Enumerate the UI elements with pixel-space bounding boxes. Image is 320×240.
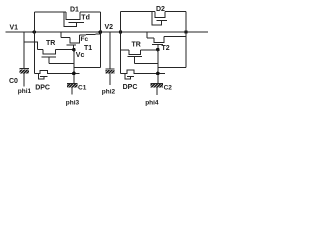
wire T2 drain bbox=[147, 37, 154, 39]
transistor TR right gate lead bbox=[134, 57, 136, 64]
label C1 bbox=[78, 84, 87, 91]
node V2 label bbox=[105, 24, 114, 31]
label TR bbox=[46, 40, 55, 47]
wire main rail V1-V2 bbox=[6, 31, 209, 33]
label DPC bbox=[35, 84, 50, 91]
svg-text:T2: T2 bbox=[162, 45, 170, 52]
label Vc bbox=[76, 52, 85, 59]
svg-text:D1: D1 bbox=[70, 7, 79, 14]
svg-text:C1: C1 bbox=[78, 84, 87, 91]
label C0 bbox=[9, 78, 18, 85]
transistor DPC gate lead loop bbox=[38, 73, 44, 79]
capacitor C2 bottom lead phi4 bbox=[156, 88, 158, 95]
svg-text:TR: TR bbox=[132, 41, 141, 48]
svg-text:DPC: DPC bbox=[123, 84, 138, 91]
label phi3 bbox=[66, 100, 80, 107]
label phi1 bbox=[18, 88, 32, 95]
wire TR drain bbox=[38, 49, 44, 51]
node V1 label bbox=[10, 24, 19, 31]
svg-text:V1: V1 bbox=[10, 24, 19, 31]
transistor Td gate lead loop to drain bbox=[64, 12, 77, 27]
label DPC right bbox=[123, 84, 138, 91]
svg-text:T1: T1 bbox=[84, 45, 92, 52]
wire top rail right cell bbox=[121, 11, 156, 13]
transistor T2 gate lead to Vc2 bbox=[157, 44, 159, 49]
label D1 bbox=[70, 7, 79, 14]
wire left cell bottom branch bbox=[33, 32, 35, 73]
wire left loop riser bbox=[33, 12, 35, 32]
transistor TR gate lead bbox=[48, 57, 50, 63]
wire top rail left cell right part bbox=[80, 11, 100, 13]
wire T2 source to node D bbox=[164, 36, 186, 38]
capacitor C2 top plate bbox=[151, 83, 163, 85]
capacitor C0 hatched plate bbox=[20, 70, 29, 74]
label C2 bbox=[164, 84, 173, 91]
wire right bottom with DPC bump bbox=[121, 70, 166, 73]
transistor DPC right gate lead loop bbox=[125, 73, 130, 79]
transistor TR channel notch bbox=[43, 50, 55, 55]
label phi2 bbox=[102, 88, 116, 95]
svg-text:phi4: phi4 bbox=[145, 99, 159, 106]
junction dot C1 node bbox=[72, 72, 76, 76]
wire top rail left cell bbox=[34, 11, 66, 13]
svg-text:Vc: Vc bbox=[76, 52, 85, 59]
svg-text:phi2: phi2 bbox=[102, 88, 116, 95]
transistor T2 channel notch bbox=[154, 37, 164, 43]
svg-text:phi3: phi3 bbox=[66, 100, 80, 107]
wire node D vertical bbox=[185, 12, 187, 68]
junction dot node D (186,32) bbox=[184, 30, 188, 34]
transistor Td (D1) channel notch bbox=[66, 12, 80, 20]
transistor T2 drain riser from rail bbox=[146, 32, 148, 38]
transistor D2 gate bar bbox=[157, 20, 167, 22]
capacitor C0 bottom lead phi1 bbox=[23, 74, 25, 87]
wire bottom with DPC bump bbox=[34, 71, 79, 74]
svg-text:TR: TR bbox=[46, 40, 55, 47]
capacitor C1 top plate bbox=[67, 83, 78, 85]
junction dot node A (34,32) bbox=[33, 30, 37, 34]
capacitor C1 bottom lead phi3 bbox=[71, 88, 73, 95]
svg-text:C0: C0 bbox=[9, 78, 18, 85]
transistor T1 drain riser from rail bbox=[60, 32, 62, 38]
wire Vc to node B lower link bbox=[74, 67, 100, 69]
wire node B vertical bbox=[99, 12, 101, 68]
label T2 bbox=[162, 45, 170, 52]
wire TR gate to node Vc bbox=[49, 62, 74, 64]
transistor DPC right gate bar bbox=[127, 75, 134, 77]
svg-text:V2: V2 bbox=[105, 24, 114, 31]
svg-text:Fc: Fc bbox=[81, 36, 89, 43]
junction dot C2 node bbox=[156, 72, 160, 76]
capacitor phi2 bottom lead bbox=[109, 74, 111, 85]
transistor D2 channel notch bbox=[155, 12, 165, 18]
transistor TR right channel notch bbox=[129, 50, 140, 54]
transistor T1 channel notch bbox=[70, 35, 79, 43]
wire right cell bottom branch bbox=[120, 32, 122, 73]
transistor T2 gate bar bbox=[152, 43, 163, 45]
junction dot node C (120.5,32) bbox=[119, 30, 123, 34]
capacitor phi2 top lead from rail bbox=[109, 32, 111, 69]
transistor T1 gate bar bbox=[66, 44, 75, 46]
wire right TR source to node Vc2 bbox=[140, 49, 158, 51]
wire right loop riser bbox=[120, 12, 122, 32]
transistor TR right gate bar bbox=[128, 56, 143, 58]
wire Vc2 vertical bbox=[157, 50, 159, 84]
capacitor C2 hatched plate bbox=[151, 84, 163, 88]
wire T1 source to node B bbox=[79, 34, 100, 35]
wire top rail right cell right part bbox=[165, 11, 186, 13]
label TR right bbox=[132, 41, 141, 48]
junction dot node B (100,32) bbox=[99, 30, 103, 34]
wire right TR drain from loop riser bbox=[121, 49, 130, 51]
capacitor phi2 top plate bbox=[106, 68, 115, 70]
transistor Td gate bar bbox=[69, 22, 85, 24]
junction dot node Vc bbox=[72, 48, 76, 52]
svg-text:C2: C2 bbox=[164, 84, 173, 91]
wire Vc vertical bbox=[73, 50, 75, 84]
capacitor C1 hatched plate bbox=[67, 84, 78, 88]
svg-text:Td: Td bbox=[81, 14, 90, 21]
label Td bbox=[81, 14, 90, 21]
label Fc bbox=[81, 36, 89, 43]
svg-text:D2: D2 bbox=[156, 6, 165, 13]
wire T1 drain bbox=[61, 37, 70, 39]
transistor T1 gate lead to Vc bbox=[72, 45, 74, 50]
wire C0 to TR drain jog bbox=[24, 42, 38, 50]
label T1 bbox=[84, 45, 92, 52]
wire Vc2 to node D lower link bbox=[158, 67, 186, 69]
wire TR right gate to node Vc2 bbox=[135, 62, 159, 64]
svg-text:DPC: DPC bbox=[35, 84, 50, 91]
transistor DPC gate bar bbox=[40, 75, 48, 77]
capacitor C0 top plate bbox=[20, 68, 29, 70]
svg-text:phi1: phi1 bbox=[18, 88, 32, 95]
label D2 bbox=[156, 6, 165, 13]
wire TR source to node Vc bbox=[55, 49, 74, 51]
transistor D2 gate lead loop to drain bbox=[152, 12, 162, 25]
capacitor C0 top lead bbox=[23, 32, 25, 69]
junction dot node Vc2 bbox=[156, 48, 160, 52]
capacitor phi2 hatched plate bbox=[106, 70, 115, 74]
transistor TR gate bar bbox=[41, 56, 56, 58]
label phi4 bbox=[145, 99, 159, 106]
